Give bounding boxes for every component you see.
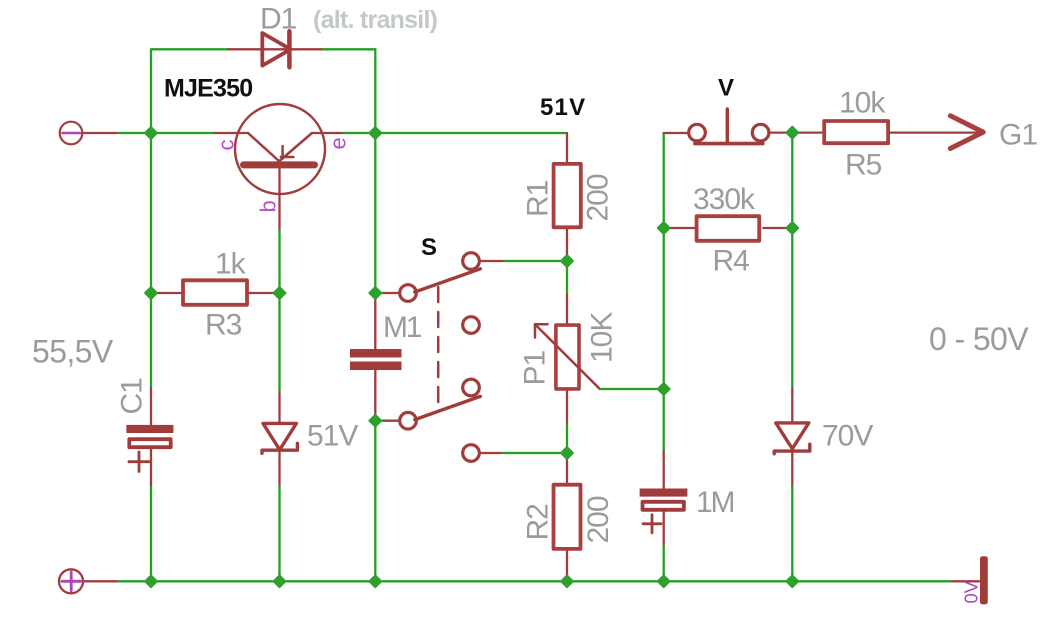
zener diode 51V <box>262 423 297 453</box>
wire node M1-bottom to lower switch common <box>375 420 384 422</box>
wire 1M bottom stub <box>663 510 665 546</box>
terminal 0V bar <box>980 556 988 604</box>
wire R1 bottom stub <box>566 229 568 261</box>
wire node2 down to M1 <box>374 133 376 293</box>
wire 1M to bus <box>663 546 665 581</box>
wire plus terminal stub <box>85 580 119 582</box>
wire R5 left stub <box>792 131 822 133</box>
wire R4 left stub <box>664 227 695 229</box>
svg-text:10k: 10k <box>839 87 886 120</box>
wire top loop horizontal right <box>323 48 375 50</box>
wire top loop right vertical <box>374 49 376 133</box>
switch S upper throw wire <box>502 260 567 262</box>
svg-text:P1: P1 <box>519 350 552 385</box>
potentiometer P1 <box>556 325 579 389</box>
wire lower throw to R2 node <box>480 452 502 454</box>
svg-text:R5: R5 <box>845 149 882 182</box>
wire base node down to zener <box>278 293 280 392</box>
wire node1 down to C1 <box>150 133 152 293</box>
wire node M1-top to switch common <box>375 292 384 294</box>
svg-text:G1: G1 <box>999 119 1037 152</box>
svg-text:1M: 1M <box>696 486 733 519</box>
svg-text:e: e <box>326 137 351 149</box>
wire C1 to bus <box>150 487 152 581</box>
wire V button left stub <box>664 132 689 134</box>
arrow G1 output <box>950 116 983 149</box>
junction V-right (792,133) <box>786 127 798 139</box>
capacitor C1 (polarized) <box>126 425 173 447</box>
wire zener 51V top stub <box>278 392 280 423</box>
terminal minus (input -) <box>60 122 83 145</box>
capacitor M1 <box>350 349 402 370</box>
svg-text:0 - 50V: 0 - 50V <box>929 321 1029 357</box>
wire top loop left vertical <box>150 49 152 133</box>
transistor Q1 MJE350 (PNP) <box>235 104 343 231</box>
svg-text:(alt. transil): (alt. transil) <box>313 6 438 34</box>
junction M1 top (375.3,293) <box>369 287 381 299</box>
wire R1 top stub <box>566 133 568 162</box>
svg-text:R3: R3 <box>205 309 242 342</box>
svg-text:R1: R1 <box>522 180 555 217</box>
svg-text:1k: 1k <box>215 248 247 281</box>
push button V <box>689 109 769 144</box>
P1 wiper arrow <box>535 324 600 389</box>
junction R4 right (792.3,228) <box>786 222 798 234</box>
resistor R4 <box>697 216 760 241</box>
wire R3 right stub <box>249 292 280 294</box>
switch linkage dashed line <box>437 287 440 408</box>
junction wiper (663.7,389) <box>658 383 670 395</box>
junction node2 (375,133) <box>369 127 381 139</box>
svg-text:70V: 70V <box>822 420 873 453</box>
junction bus R2 (567,581.3) <box>561 575 573 587</box>
wire zener 70V top stub <box>791 388 793 421</box>
junction R4 left (663.7,228) <box>658 222 670 234</box>
wire R2 bottom stub <box>566 550 568 582</box>
zener diode 70V <box>774 423 810 454</box>
wire C1 top stub <box>150 388 152 425</box>
junction bus C1 (151,581.3) <box>145 575 157 587</box>
wire 0V terminal stub <box>952 580 979 582</box>
wire V button corner down <box>663 133 665 228</box>
wire M1 node down to bus <box>374 421 376 582</box>
resistor R2 <box>554 485 581 549</box>
svg-text:M1: M1 <box>383 311 422 344</box>
resistor R5 <box>824 121 888 143</box>
wire P1 bottom stub <box>566 391 568 424</box>
diode D1 <box>262 31 290 67</box>
capacitor 1M (polarized) <box>640 489 688 510</box>
wire minus terminal to node (red stub then green) <box>84 132 118 134</box>
switch S (upper pole) <box>400 253 481 302</box>
svg-text:R2: R2 <box>522 504 555 541</box>
wire wiper node down to 1M <box>663 389 665 451</box>
junction bus zener70 (792.3,581.3) <box>786 575 798 587</box>
junction bus M1 (375.3,581.3) <box>369 575 381 587</box>
svg-text:200: 200 <box>582 496 615 543</box>
svg-text:V: V <box>718 75 734 102</box>
svg-text:330k: 330k <box>693 183 756 216</box>
wire R4 right stub <box>763 227 792 229</box>
wire M1 bottom stub <box>374 370 376 421</box>
wire zener 51V to bus <box>278 486 280 581</box>
wire C1 bottom stub <box>150 447 152 487</box>
wire R5 to G1 arrow <box>890 131 981 133</box>
wire base to R3 node (green) <box>278 231 280 293</box>
wire R2 top stub <box>566 453 568 484</box>
svg-text:c: c <box>214 140 239 151</box>
wire D1 cathode stub <box>289 48 323 50</box>
wire 1M top stub <box>663 451 665 489</box>
svg-text:MJE350: MJE350 <box>164 75 252 103</box>
svg-text:55,5V: 55,5V <box>32 334 114 370</box>
wire node V-right down to 70V zener <box>791 133 793 228</box>
junction bus 1M (663.7,581.3) <box>658 575 670 587</box>
svg-text:200: 200 <box>582 174 615 221</box>
plus mark 1M <box>643 515 661 533</box>
wire bottom bus <box>118 580 952 582</box>
wire zener 70V to bus <box>791 486 793 581</box>
junction R1 bottom (567,261) <box>561 255 573 267</box>
resistor R1 <box>554 164 581 227</box>
plus mark C1 <box>129 452 149 472</box>
terminal plus (input +) <box>59 569 83 593</box>
svg-text:D1: D1 <box>260 3 297 36</box>
junction R3 right (279.5,293) <box>274 287 286 299</box>
junction bus zener51 (279.5,581.3) <box>274 575 286 587</box>
junction node1 (151,133) <box>145 127 157 139</box>
junction R2 top (567,453) <box>561 447 573 459</box>
resistor R3 <box>183 280 247 305</box>
wire node R4-left down to wiper node <box>663 228 665 389</box>
junction R3 left (151,293) <box>145 287 157 299</box>
wire M1 top stub <box>374 293 376 349</box>
svg-text:R4: R4 <box>713 245 750 278</box>
wire top loop horizontal left <box>151 48 228 50</box>
wire main row node1 to transistor collector <box>151 132 215 134</box>
svg-text:10K: 10K <box>586 312 619 363</box>
wire zener 51V bottom stub <box>278 450 280 486</box>
wire transistor emitter to node2 <box>343 132 375 134</box>
svg-text:C1: C1 <box>116 378 149 415</box>
junction M1 bottom (375.3,420.7) <box>369 415 381 427</box>
wire R1 node down to P1 <box>566 261 568 295</box>
svg-text:b: b <box>256 200 281 212</box>
switch S (lower pole) <box>400 379 481 461</box>
wire main row node2 to R1 corner <box>375 132 567 134</box>
wire P1 wiper to node <box>600 388 664 390</box>
svg-text:51V: 51V <box>540 94 586 121</box>
wire R3 left stub <box>151 292 181 294</box>
wire V button right stub <box>769 131 792 133</box>
svg-text:0V: 0V <box>961 580 982 603</box>
wire D1 anode stub <box>228 48 262 50</box>
wire zener 70V bottom stub <box>791 451 793 486</box>
svg-text:S: S <box>421 234 437 261</box>
switch S middle contact <box>463 317 480 334</box>
svg-text:51V: 51V <box>307 420 358 453</box>
